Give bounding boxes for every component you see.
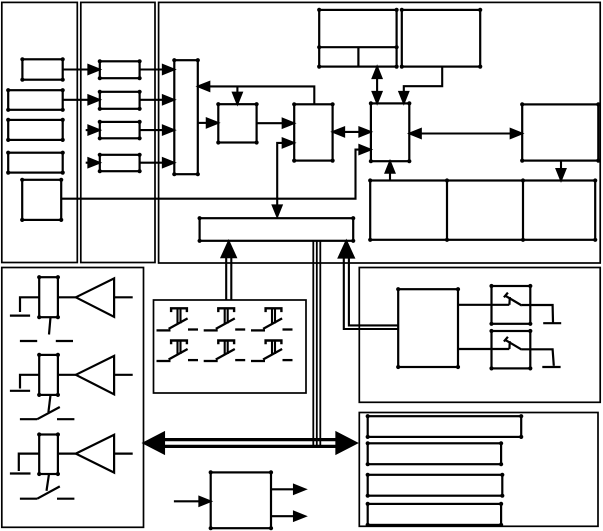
- bus arrowhead into BR panel: [336, 433, 356, 454]
- junction dots R: [520, 102, 524, 106]
- relay group 2: output wire: [114, 374, 133, 376]
- double arrow T1 to M: [376, 76, 378, 94]
- keypad button S1: [157, 308, 199, 330]
- feedback wire M area to TB with arrow: [198, 82, 209, 91]
- feedback branch arrow into A top: [236, 86, 238, 94]
- keypad button S2: [204, 308, 246, 330]
- wire stub to P2-4: [86, 162, 89, 164]
- wire SB1 to terminal: [522, 305, 553, 323]
- box BC (bottom center box): [211, 472, 271, 528]
- panel KP (keypad panel): [154, 300, 307, 393]
- box A: [218, 104, 256, 142]
- keypad button S6: [251, 341, 293, 362]
- bar BR-2: [368, 443, 501, 464]
- keypad button S3: [251, 308, 293, 330]
- junction dots P1-3: [6, 118, 10, 122]
- relay group 1: coil box: [39, 277, 58, 317]
- junction dots P1-5: [20, 178, 24, 182]
- panel SP (switch panel): [359, 268, 600, 403]
- wire SB2 to terminal: [522, 349, 554, 366]
- CONTENT: [8, 10, 598, 241]
- wire P1-2 to P2-2: [63, 99, 90, 101]
- box P2-4: [100, 155, 140, 171]
- bus bar box: [200, 218, 354, 241]
- wire T2 down to M: [404, 67, 442, 93]
- CONTENT3: [157, 308, 293, 361]
- panel BL (bottom-left relay panel): [2, 268, 144, 528]
- relay group 2: amplifier triangle: [76, 356, 114, 394]
- junction dots BC: [209, 470, 213, 474]
- box B: [294, 104, 332, 160]
- relay group 3: amplifier triangle: [76, 435, 114, 473]
- junction dots coil3: [37, 432, 41, 436]
- double arrow M to R: [419, 132, 513, 134]
- junction dots P1-4: [6, 151, 10, 155]
- relay group 1: left wire and contact bar: [20, 297, 39, 312]
- box P1-4: [8, 153, 63, 173]
- panel P2 (second column frame): [81, 2, 155, 262]
- relay group 1: output wire: [114, 296, 133, 298]
- junction dots T1: [317, 8, 321, 12]
- relay group 2: left wire and contact bar: [20, 375, 39, 389]
- junction dots P2-2: [98, 90, 102, 94]
- wire CB to SB2: [458, 348, 509, 350]
- relay group 3: switch dashes and lever: [20, 498, 37, 500]
- wire P2-2 to TB: [140, 99, 164, 101]
- wire P1-1 to P2-1: [63, 68, 90, 70]
- wire P2-3 to TB: [140, 129, 164, 131]
- relay group 3: coil box: [39, 435, 58, 475]
- box P2-2: [100, 92, 140, 109]
- box T1 horizontal divider: [319, 46, 396, 48]
- relay group 2: lead below coil: [48, 395, 50, 412]
- junction dots T1 divider ends: [317, 45, 321, 49]
- relay group 2: wire coil to triangle: [58, 374, 76, 376]
- relay group 3: left wire and contact bar: [19, 454, 39, 471]
- panel BR (bottom-right panel): [359, 413, 598, 527]
- CONTENT2: [144, 241, 398, 454]
- box P1-3: [8, 120, 63, 140]
- box TB (tall register box): [174, 60, 198, 174]
- junction dots B: [292, 102, 296, 106]
- bar BR-1: [368, 416, 522, 437]
- wire CB to SB1: [458, 304, 509, 306]
- bus arrowhead into BL panel: [144, 433, 164, 454]
- junction dots SB1: [489, 284, 493, 288]
- double arrow B to M: [342, 131, 362, 133]
- arrow BC output 2: [271, 515, 296, 517]
- box W divider 2: [522, 181, 524, 240]
- box P1-5: [22, 180, 61, 220]
- keypad button S4: [157, 341, 199, 362]
- box P1-1: [22, 59, 62, 79]
- relay group 1: open contact dashes: [20, 340, 37, 342]
- bar BR-3: [368, 475, 503, 496]
- junction dots TB: [172, 58, 176, 62]
- box W (wide 3-section box): [370, 181, 595, 240]
- horizontal bus (double line): [160, 438, 340, 441]
- panel P1 (left column frame): [2, 2, 78, 262]
- switch SB1 contact: [508, 297, 511, 305]
- box P1-2: [8, 90, 63, 110]
- junction dots P1-1: [20, 57, 24, 61]
- wire P1-5 long line to M: [61, 150, 360, 199]
- box P2-1: [100, 61, 140, 78]
- junction dots coil1: [37, 275, 41, 279]
- junction dots M: [369, 101, 373, 105]
- box P2-3: [100, 122, 140, 138]
- relay group 1: wire coil to triangle: [58, 296, 76, 298]
- junction dots BR1: [366, 414, 370, 418]
- box SB1 (switch box 1): [492, 286, 531, 324]
- box T2 (top right box): [402, 10, 480, 67]
- box M (central controller): [371, 103, 409, 161]
- bus keypad to bus bar (double line, up arrow): [225, 254, 227, 300]
- wire stub to P2-3: [86, 129, 89, 131]
- junction dots SB2: [489, 329, 493, 333]
- box T1 (top box with dividers): [319, 10, 396, 67]
- relay group 3: wire coil to triangle: [58, 453, 76, 455]
- junction dots BR2: [366, 441, 370, 445]
- junction dots coil2: [37, 353, 41, 357]
- switch SB2 contact: [508, 341, 511, 349]
- relay group 3: output wire: [114, 453, 133, 455]
- wire TB to A: [198, 122, 208, 124]
- box W divider 1: [446, 181, 448, 240]
- wire A to B: [257, 122, 284, 124]
- wire P2-1 to TB: [140, 68, 164, 70]
- box T1 vertical divider: [357, 47, 359, 66]
- panel P3 (main top frame): [159, 2, 601, 263]
- arrow BC output 1: [271, 488, 296, 490]
- box CB (switch control box): [398, 289, 458, 367]
- wire bus bar up to B (bidirectional): [277, 143, 283, 206]
- junction dots A: [216, 102, 220, 106]
- junction dots P2-1: [98, 59, 102, 63]
- junction dots P1-2: [6, 88, 10, 92]
- wire P2-4 to TB: [140, 162, 164, 164]
- relay group 1: amplifier triangle: [76, 278, 114, 316]
- relay group 2: coil box: [39, 355, 58, 395]
- junction dots CB: [396, 287, 400, 291]
- junction dots W divider junctions: [445, 178, 449, 182]
- box SB2 (switch box 2): [492, 331, 531, 368]
- junction dots BR4: [366, 502, 370, 506]
- relay group 3: lead below coil: [47, 474, 50, 491]
- junction dots P2-4: [98, 153, 102, 157]
- bar BR-4: [368, 504, 501, 525]
- central vertical bus (triple line): [312, 241, 314, 448]
- junction dots busbar: [198, 216, 202, 220]
- box R (right box): [522, 104, 598, 160]
- keypad button S5: [204, 341, 246, 362]
- junction dots W: [368, 178, 372, 182]
- junction dots P2-3: [98, 120, 102, 124]
- arrow into BC: [174, 500, 201, 502]
- arrow W up to M: [389, 172, 391, 181]
- junction dots T2: [400, 8, 404, 12]
- arrow R down to W: [560, 161, 562, 171]
- relay group 2: switch dashes and lever: [20, 418, 37, 420]
- junction dots BR3: [366, 473, 370, 477]
- relay group 1: lead below coil: [49, 317, 51, 334]
- bus control box to bus bar (double line elbow, up arrow): [344, 255, 398, 329]
